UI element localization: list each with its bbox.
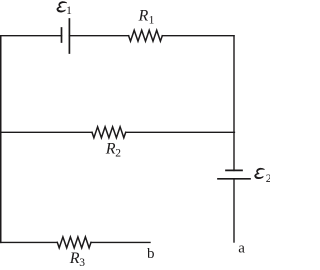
label EMF E1 script glyph	[57, 1, 68, 12]
wire: top-right segment R1 to corner	[162, 35, 234, 37]
svg-text:R: R	[69, 250, 80, 267]
battery E2 long plate (positive)	[218, 178, 250, 180]
svg-text:R: R	[138, 8, 149, 25]
wire: right vertical lower segment battery E2 to node a	[233, 179, 235, 242]
label EMF E2 script glyph	[254, 168, 265, 179]
resistor R2	[92, 127, 126, 138]
battery E1 short plate (negative)	[61, 28, 63, 42]
svg-text:a: a	[238, 240, 245, 256]
svg-text:2: 2	[266, 173, 270, 185]
resistor R1	[129, 30, 163, 41]
wire: bottom segment R3 to node b	[91, 241, 150, 243]
wire: left vertical branch	[0, 36, 2, 243]
wire: right vertical upper segment to battery E2	[233, 36, 235, 171]
svg-text:R: R	[105, 140, 116, 157]
wire: bottom-left segment to resistor R3	[0, 241, 57, 243]
svg-text:1: 1	[66, 5, 72, 17]
svg-text:3: 3	[79, 257, 85, 269]
svg-text:b: b	[147, 246, 155, 262]
battery E1 long plate (positive)	[68, 19, 70, 53]
wire: top-left segment to battery E1	[0, 35, 62, 37]
wire: middle-right segment R2 to right branch	[126, 131, 235, 133]
wire: top segment battery E1 to resistor R1	[69, 35, 128, 37]
svg-text:2: 2	[115, 147, 121, 159]
svg-text:1: 1	[149, 15, 155, 27]
battery E2 short plate (negative)	[226, 169, 242, 171]
wire: middle-left segment to resistor R2	[0, 131, 92, 133]
resistor R3	[57, 237, 91, 248]
